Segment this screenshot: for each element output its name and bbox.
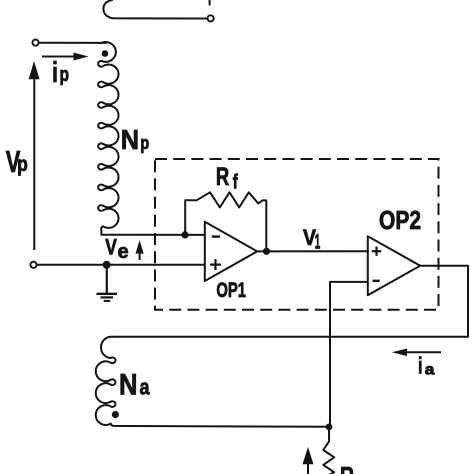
svg-text:p: p xyxy=(17,153,28,176)
voltage arrow (bottom, cropped) xyxy=(303,447,314,474)
winding Np (primary, 8 loops) xyxy=(98,42,118,235)
svg-text:p: p xyxy=(60,64,70,86)
wire (OP2 feedback: inverting input down to sense node) xyxy=(330,282,368,427)
svg-text:OP2: OP2 xyxy=(379,205,421,235)
svg-text:i: i xyxy=(418,353,423,379)
wire (bottom rail to OP1 non-inverting input) xyxy=(37,264,205,266)
svg-text:a: a xyxy=(140,375,151,400)
ground xyxy=(97,265,118,301)
wire (OP2 output right, down, and left to Na top) xyxy=(112,266,468,337)
OP1 non-inverting pin mark xyxy=(210,259,221,270)
svg-text:1: 1 xyxy=(315,230,321,253)
svg-text:i: i xyxy=(52,57,58,89)
svg-text:R: R xyxy=(216,163,229,191)
junction (OP1 output / Rf) xyxy=(263,248,270,255)
svg-text:V: V xyxy=(105,235,117,260)
wire (node V1: OP1 output to OP2 non-inverting input) xyxy=(257,250,368,252)
svg-text:R: R xyxy=(340,461,354,474)
op-amp OP1 xyxy=(205,222,257,281)
label Na xyxy=(119,368,150,401)
winding Na (auxiliary, 4 loops) xyxy=(96,337,329,427)
polarity dot (Np top) xyxy=(102,50,109,57)
svg-text:a: a xyxy=(425,361,435,378)
svg-text:f: f xyxy=(233,172,238,194)
wire (cropped upper winding loop and lead, top of figure) xyxy=(103,0,209,19)
svg-text:N: N xyxy=(119,368,138,401)
current arrow ip xyxy=(42,53,89,61)
label V1 xyxy=(303,225,320,254)
terminal (open circle, top lead) xyxy=(208,15,214,21)
junction (Rf tap on inverting input) xyxy=(181,231,188,238)
resistor R (burden, cropped at bottom) xyxy=(323,427,334,474)
wire (primary top lead) xyxy=(39,42,107,44)
polarity dot (Na bottom) xyxy=(112,411,119,418)
label Rf xyxy=(216,163,238,193)
OP2 non-inverting pin mark xyxy=(372,247,381,256)
label Vp xyxy=(6,144,28,179)
label ia xyxy=(418,353,435,379)
junction (ground tap) xyxy=(103,261,111,269)
svg-text:p: p xyxy=(140,132,149,153)
svg-text:N: N xyxy=(121,124,139,155)
junction (Na bottom / OP2 feedback / burden resistor) xyxy=(326,424,333,431)
OP2 inverting pin mark xyxy=(373,280,380,282)
wire (Np bottom to OP1 inverting input, node Ve) xyxy=(101,234,204,236)
terminal (open circle, primary bottom left) xyxy=(30,262,36,268)
dashed amplifier box xyxy=(155,159,439,310)
OP1 inverting pin mark xyxy=(212,235,220,237)
current arrow ia xyxy=(392,349,441,357)
label Ve xyxy=(105,235,128,263)
voltage arrow Vp xyxy=(29,61,40,250)
voltage arrow Ve xyxy=(136,240,144,260)
label Np xyxy=(121,124,149,155)
terminal (open circle, primary top left) xyxy=(32,40,38,46)
svg-text:OP1: OP1 xyxy=(216,278,246,302)
svg-text:e: e xyxy=(118,241,129,263)
op-amp OP2 xyxy=(368,236,420,295)
resistor Rf (feedback) xyxy=(185,192,266,251)
label ip xyxy=(52,57,69,89)
